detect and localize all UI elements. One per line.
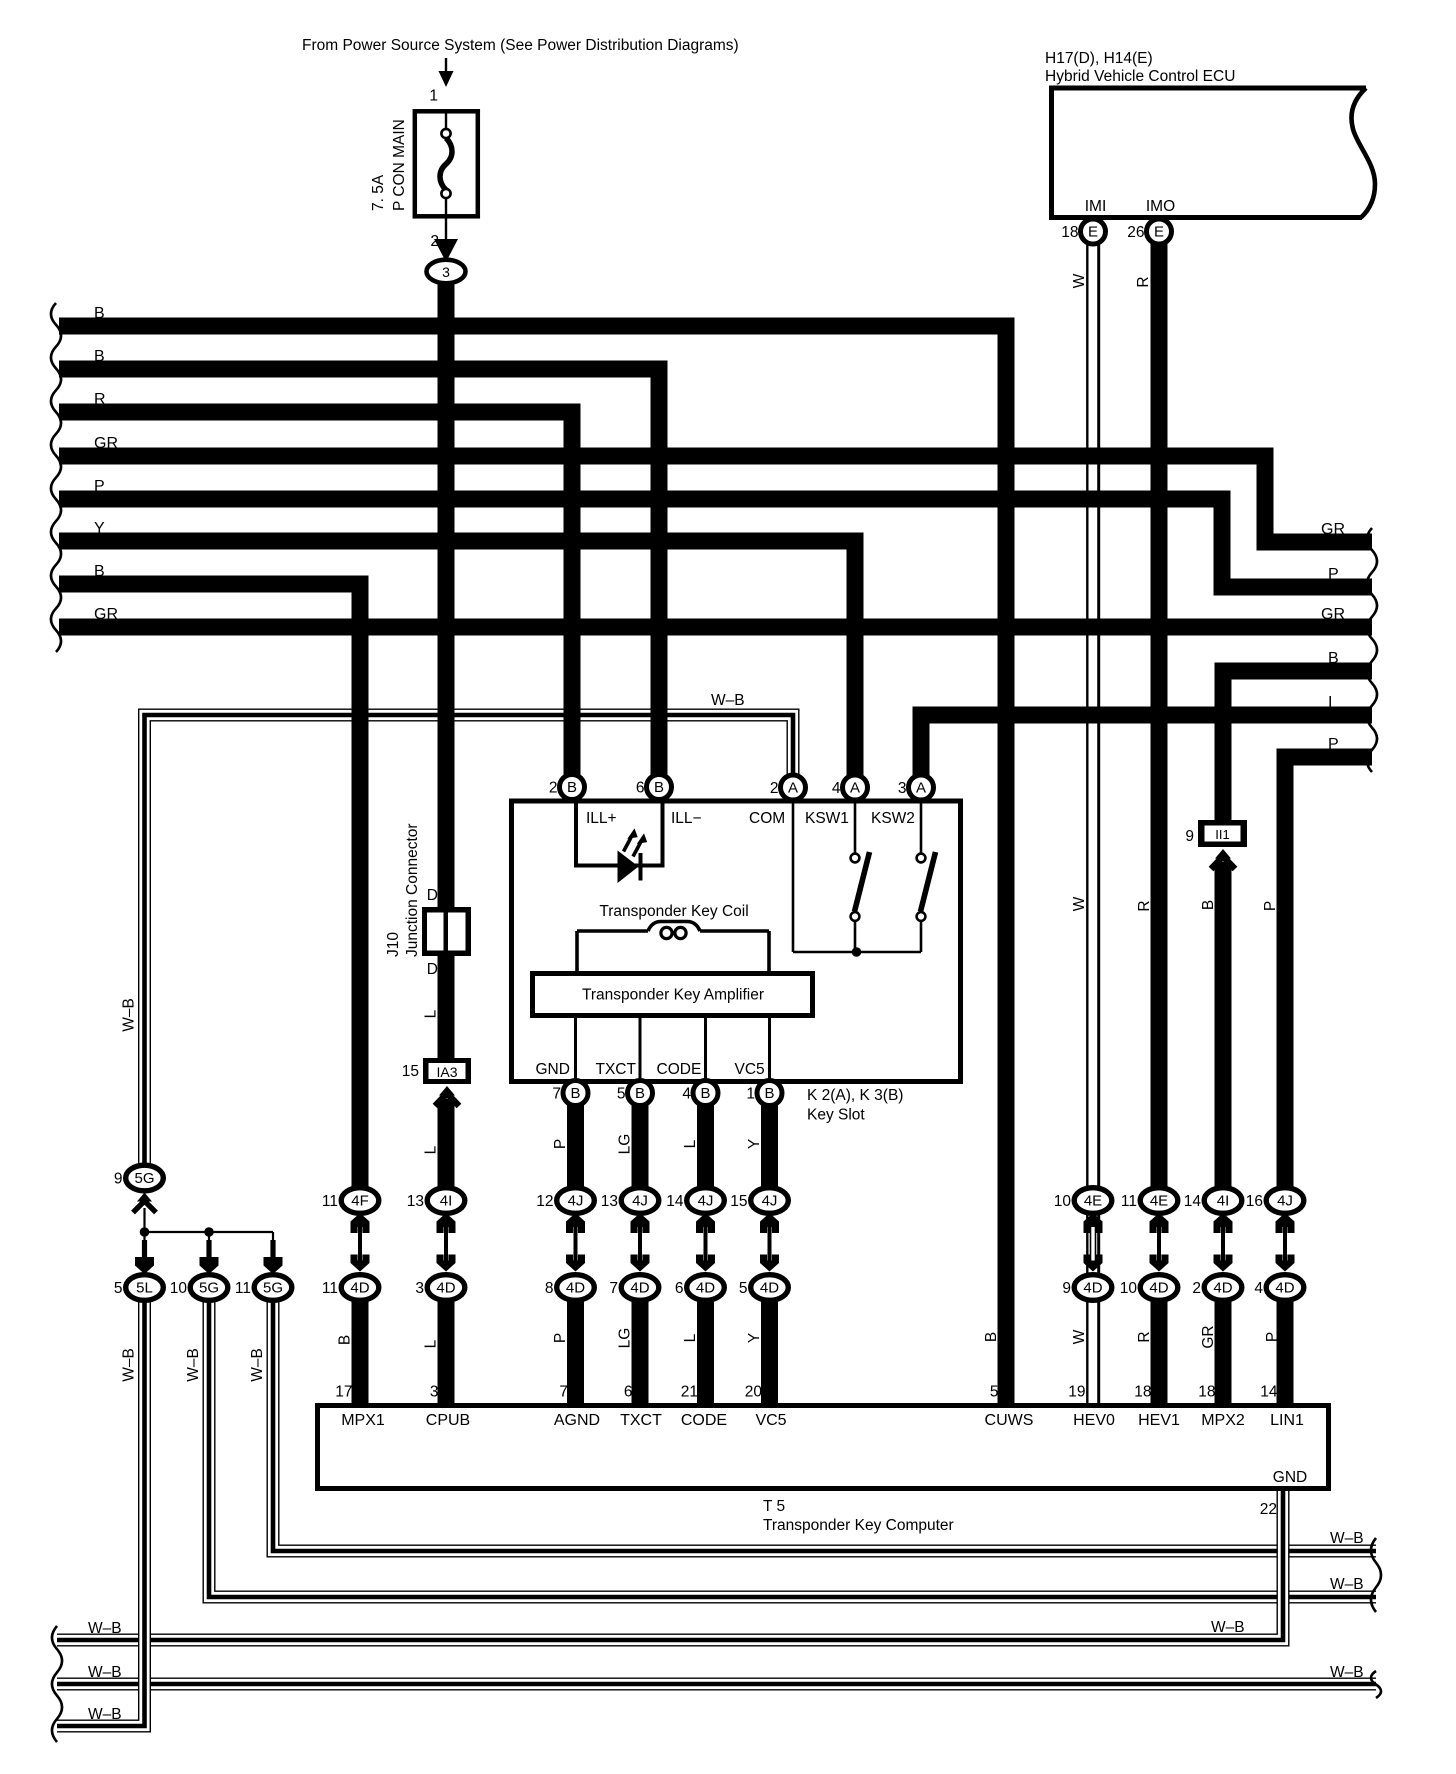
svg-text:4D: 4D (696, 1280, 715, 1297)
svg-text:5: 5 (990, 1384, 999, 1401)
svg-text:18: 18 (1198, 1384, 1215, 1401)
svg-text:11: 11 (322, 1280, 338, 1297)
svg-text:R: R (1135, 276, 1152, 287)
svg-text:15: 15 (730, 1193, 747, 1210)
svg-text:4D: 4D (1083, 1280, 1102, 1297)
svg-text:26: 26 (1127, 224, 1144, 241)
svg-text:Y: Y (94, 520, 105, 537)
svg-text:L: L (423, 1145, 440, 1154)
svg-text:H17(D), H14(E): H17(D), H14(E) (1045, 50, 1153, 67)
svg-text:B: B (1200, 900, 1217, 910)
svg-text:P: P (552, 1139, 569, 1149)
svg-text:4J: 4J (1277, 1193, 1293, 1210)
svg-text:GND: GND (536, 1061, 570, 1078)
svg-text:P: P (94, 478, 105, 495)
svg-text:4D: 4D (1149, 1280, 1168, 1297)
svg-text:CODE: CODE (657, 1061, 702, 1078)
svg-text:21: 21 (681, 1384, 698, 1401)
svg-text:IMO: IMO (1146, 198, 1175, 215)
svg-text:20: 20 (745, 1384, 763, 1401)
svg-text:4J: 4J (698, 1193, 714, 1210)
svg-text:W–B: W–B (249, 1348, 266, 1382)
svg-text:4D: 4D (760, 1280, 779, 1297)
svg-text:3: 3 (430, 1384, 439, 1401)
svg-text:CUWS: CUWS (985, 1412, 1034, 1429)
svg-text:W–B: W–B (1330, 1530, 1364, 1547)
svg-text:Transponder Key Computer: Transponder Key Computer (763, 1517, 954, 1534)
svg-text:4D: 4D (1275, 1280, 1294, 1297)
svg-text:11: 11 (322, 1193, 338, 1210)
svg-text:P: P (1262, 901, 1279, 911)
svg-text:W–B: W–B (185, 1348, 202, 1382)
svg-text:B: B (700, 1085, 710, 1102)
svg-text:I: I (1328, 694, 1332, 711)
svg-text:VC5: VC5 (735, 1061, 765, 1078)
svg-text:W–B: W–B (711, 692, 745, 709)
svg-text:Y: Y (746, 1333, 763, 1343)
svg-text:P: P (1328, 566, 1339, 583)
svg-text:18: 18 (1134, 1384, 1151, 1401)
svg-text:L: L (423, 1339, 440, 1348)
svg-text:COM: COM (749, 810, 785, 827)
svg-text:IA3: IA3 (436, 1064, 457, 1080)
svg-text:4: 4 (682, 1086, 691, 1103)
svg-text:4I: 4I (1217, 1193, 1230, 1210)
svg-text:11: 11 (235, 1280, 251, 1297)
svg-text:14: 14 (1184, 1193, 1202, 1210)
svg-text:W: W (1071, 896, 1088, 911)
svg-text:2: 2 (770, 780, 779, 797)
svg-text:6: 6 (636, 780, 645, 797)
svg-text:11: 11 (1121, 1193, 1137, 1210)
svg-text:22: 22 (1260, 1501, 1277, 1518)
svg-text:R: R (1136, 1331, 1153, 1342)
svg-text:6: 6 (624, 1384, 633, 1401)
svg-text:13: 13 (407, 1193, 424, 1210)
svg-text:D: D (427, 961, 438, 978)
svg-text:CODE: CODE (681, 1412, 727, 1429)
svg-text:5: 5 (114, 1280, 123, 1297)
svg-text:10: 10 (1120, 1280, 1138, 1297)
svg-text:9: 9 (1062, 1280, 1071, 1297)
svg-text:J10: J10 (385, 932, 402, 957)
svg-text:4J: 4J (762, 1193, 778, 1210)
svg-text:10: 10 (170, 1280, 188, 1297)
svg-text:AGND: AGND (554, 1412, 600, 1429)
svg-text:7: 7 (609, 1280, 618, 1297)
svg-text:7: 7 (559, 1384, 568, 1401)
svg-text:1: 1 (746, 1086, 755, 1103)
svg-text:GR: GR (94, 435, 118, 452)
svg-text:4D: 4D (566, 1280, 585, 1297)
svg-text:1: 1 (429, 88, 438, 105)
svg-text:B: B (570, 1085, 580, 1102)
svg-text:P: P (1328, 736, 1339, 753)
svg-text:P: P (552, 1333, 569, 1343)
svg-text:5: 5 (739, 1280, 748, 1297)
svg-text:3: 3 (898, 780, 907, 797)
svg-text:GR: GR (94, 606, 118, 623)
svg-text:R: R (94, 391, 106, 408)
svg-text:Hybrid Vehicle Control ECU: Hybrid Vehicle Control ECU (1045, 68, 1235, 85)
svg-text:HEV1: HEV1 (1138, 1412, 1180, 1429)
svg-text:K 2(A), K 3(B): K 2(A), K 3(B) (807, 1087, 903, 1104)
svg-text:TXCT: TXCT (620, 1412, 662, 1429)
svg-text:P: P (1264, 1332, 1281, 1342)
svg-text:B: B (654, 779, 664, 796)
svg-text:T 5: T 5 (763, 1498, 785, 1515)
svg-text:D: D (427, 887, 438, 904)
svg-text:2: 2 (430, 233, 439, 250)
svg-text:9: 9 (1185, 828, 1194, 845)
svg-text:3: 3 (442, 264, 450, 280)
svg-text:B: B (635, 1085, 645, 1102)
svg-text:GR: GR (1321, 606, 1345, 623)
svg-text:6: 6 (675, 1280, 684, 1297)
svg-text:5: 5 (617, 1086, 626, 1103)
svg-text:Y: Y (746, 1139, 763, 1149)
svg-text:A: A (916, 780, 926, 797)
svg-text:2: 2 (549, 780, 558, 797)
svg-text:17: 17 (335, 1384, 352, 1401)
svg-text:E: E (1154, 224, 1164, 241)
svg-text:W: W (1071, 1329, 1088, 1344)
svg-text:12: 12 (536, 1193, 553, 1210)
svg-text:LIN1: LIN1 (1270, 1412, 1304, 1429)
svg-text:4E: 4E (1084, 1193, 1102, 1210)
svg-text:4J: 4J (568, 1193, 584, 1210)
svg-text:7: 7 (552, 1086, 561, 1103)
svg-text:Key Slot: Key Slot (807, 1107, 865, 1124)
svg-text:MPX2: MPX2 (1201, 1412, 1245, 1429)
svg-text:5G: 5G (199, 1280, 219, 1297)
svg-text:TXCT: TXCT (596, 1061, 637, 1078)
svg-text:W–B: W–B (88, 1706, 122, 1723)
svg-text:4F: 4F (351, 1193, 369, 1210)
svg-text:W–B: W–B (88, 1620, 122, 1637)
svg-text:IMI: IMI (1085, 198, 1107, 215)
svg-text:W–B: W–B (1330, 1664, 1364, 1681)
svg-text:4D: 4D (350, 1280, 369, 1297)
svg-text:2: 2 (1192, 1280, 1201, 1297)
svg-text:W: W (1071, 273, 1088, 288)
svg-text:13: 13 (601, 1193, 618, 1210)
svg-text:4: 4 (832, 780, 841, 797)
svg-text:4: 4 (1254, 1280, 1263, 1297)
svg-text:A: A (850, 780, 860, 797)
svg-text:W–B: W–B (1211, 1619, 1245, 1636)
svg-text:VC5: VC5 (755, 1412, 786, 1429)
svg-text:L: L (682, 1139, 699, 1148)
svg-text:W–B: W–B (121, 1348, 138, 1382)
svg-text:W–B: W–B (1330, 1576, 1364, 1593)
svg-text:4E: 4E (1150, 1193, 1168, 1210)
svg-text:5G: 5G (263, 1280, 283, 1297)
svg-text:B: B (94, 305, 105, 322)
svg-text:GR: GR (1321, 521, 1345, 538)
svg-text:19: 19 (1068, 1384, 1085, 1401)
svg-text:B: B (337, 1335, 354, 1345)
svg-text:Transponder Key Amplifier: Transponder Key Amplifier (582, 987, 764, 1004)
svg-text:4D: 4D (436, 1280, 455, 1297)
svg-text:B: B (983, 1332, 1000, 1342)
svg-text:MPX1: MPX1 (341, 1412, 385, 1429)
svg-text:5G: 5G (134, 1170, 154, 1187)
svg-text:KSW1: KSW1 (805, 810, 849, 827)
svg-text:4D: 4D (1213, 1280, 1232, 1297)
svg-text:3: 3 (415, 1280, 424, 1297)
svg-text:W–B: W–B (121, 998, 138, 1032)
svg-text:7. 5A: 7. 5A (370, 174, 387, 211)
svg-text:ILL+: ILL+ (586, 810, 617, 827)
svg-text:5L: 5L (136, 1280, 153, 1297)
svg-text:18: 18 (1061, 224, 1078, 241)
svg-text:LG: LG (617, 1328, 634, 1349)
svg-text:CPUB: CPUB (426, 1412, 470, 1429)
svg-text:W–B: W–B (88, 1664, 122, 1681)
svg-text:B: B (764, 1085, 774, 1102)
svg-text:E: E (1088, 224, 1098, 241)
svg-text:R: R (1136, 900, 1153, 911)
svg-text:A: A (788, 780, 798, 797)
svg-text:B: B (94, 563, 105, 580)
svg-text:L: L (682, 1333, 699, 1342)
svg-text:II1: II1 (1215, 827, 1229, 842)
svg-text:9: 9 (114, 1171, 123, 1188)
svg-text:14: 14 (1260, 1384, 1278, 1401)
svg-text:Transponder Key Coil: Transponder Key Coil (599, 903, 748, 920)
svg-text:B: B (1328, 650, 1339, 667)
svg-text:KSW2: KSW2 (871, 810, 915, 827)
svg-text:GR: GR (1200, 1325, 1217, 1348)
svg-text:16: 16 (1246, 1193, 1263, 1210)
svg-text:B: B (567, 779, 577, 796)
svg-text:10: 10 (1054, 1193, 1072, 1210)
svg-text:4J: 4J (632, 1193, 648, 1210)
svg-text:GND: GND (1273, 1469, 1307, 1486)
svg-text:HEV0: HEV0 (1073, 1412, 1115, 1429)
svg-text:14: 14 (666, 1193, 684, 1210)
svg-text:P CON MAIN: P CON MAIN (391, 119, 408, 211)
svg-text:L: L (423, 1009, 440, 1018)
svg-text:4D: 4D (630, 1280, 649, 1297)
svg-text:ILL−: ILL− (671, 810, 702, 827)
svg-text:Junction Connector: Junction Connector (404, 823, 421, 957)
svg-text:15: 15 (402, 1063, 419, 1080)
svg-text:From Power Source System (See: From Power Source System (See Power Dist… (302, 37, 739, 54)
svg-text:4I: 4I (440, 1193, 453, 1210)
svg-text:LG: LG (617, 1134, 634, 1155)
svg-text:B: B (94, 348, 105, 365)
svg-text:8: 8 (545, 1280, 554, 1297)
